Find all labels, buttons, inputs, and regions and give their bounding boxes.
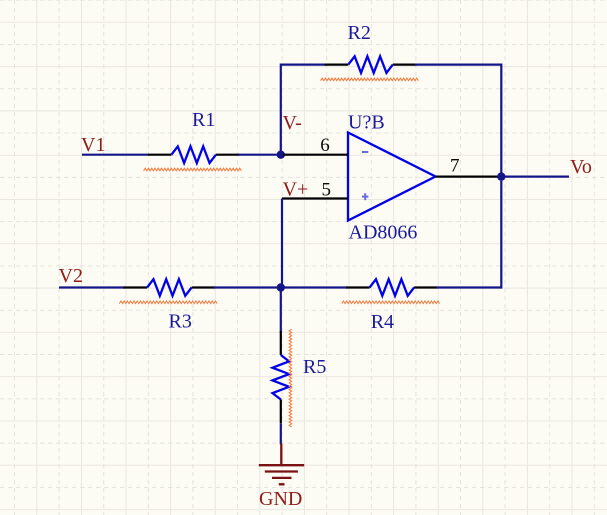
resistor R3 xyxy=(119,279,217,303)
wire V+ node down to center node xyxy=(281,199,283,288)
resistor R2 xyxy=(321,56,419,80)
svg-text:R3: R3 xyxy=(169,311,192,333)
svg-text:GND: GND xyxy=(259,488,302,510)
resistor R4 xyxy=(342,279,440,303)
junction dot inverting node xyxy=(277,151,285,159)
svg-text:V+: V+ xyxy=(283,178,309,200)
wire V1 to R1 xyxy=(82,154,149,156)
wire R3 to center node xyxy=(214,286,281,288)
svg-text:V-: V- xyxy=(283,112,302,134)
wire R5 to ground xyxy=(280,423,282,444)
wire R4 up to output column xyxy=(437,181,502,288)
svg-text:R2: R2 xyxy=(348,22,371,44)
svg-text:R5: R5 xyxy=(303,356,326,378)
wire output node to Vo xyxy=(501,176,569,178)
wire inverting node up and across to R2 xyxy=(281,65,326,155)
svg-text:V1: V1 xyxy=(81,134,105,156)
wire V2 to R3 xyxy=(59,286,125,288)
ground symbol GND xyxy=(259,444,304,485)
svg-text:R1: R1 xyxy=(192,109,215,131)
junction dot center node xyxy=(277,283,285,291)
op-amp U?B AD8066 xyxy=(348,133,436,221)
svg-text:V2: V2 xyxy=(59,265,83,287)
wire R1 to inverting node xyxy=(238,154,280,156)
junction dot output node xyxy=(497,172,505,180)
svg-text:7: 7 xyxy=(450,156,460,177)
wire R2 right to output column xyxy=(415,65,501,177)
svg-text:R4: R4 xyxy=(371,311,394,333)
wire center node down to R5 xyxy=(280,288,282,333)
svg-text:Vo: Vo xyxy=(570,156,592,178)
svg-text:5: 5 xyxy=(322,179,332,200)
pin 6 (inverting input) xyxy=(283,154,348,156)
pin 5 (non-inverting input) xyxy=(282,197,348,199)
svg-text:6: 6 xyxy=(320,135,330,156)
svg-text:U?B: U?B xyxy=(348,112,385,134)
svg-text:AD8066: AD8066 xyxy=(349,222,418,244)
wire center node to R4 xyxy=(281,286,348,288)
pin 7 (output) xyxy=(436,176,502,178)
resistor R5 xyxy=(273,329,292,427)
resistor R1 xyxy=(144,146,242,170)
